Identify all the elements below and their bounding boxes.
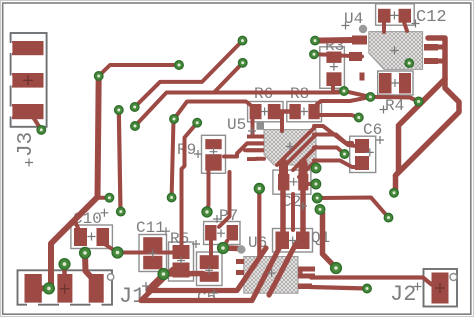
pin1 marker dot U4 [359, 25, 367, 33]
svg-text:C6: C6 [363, 121, 382, 139]
wire P7 left pad down to C5 top pad [209, 239, 213, 257]
J1 pin1 indicator circle [107, 274, 113, 280]
pin1 marker dot U6 [237, 245, 245, 253]
via V_q [112, 247, 123, 258]
capacitor C11 pad top [143, 237, 162, 251]
resistor R5 pad bottom [173, 263, 190, 278]
wire via B2 to via C2v [370, 97, 418, 102]
wire U5 pin3 stub [245, 148, 262, 152]
wire C10 right pad diag to via V_q [106, 245, 118, 253]
wire band1: via V_n diag, horizontal, diag d1 to Q1 left pad [148, 248, 266, 291]
via right of R4 [414, 97, 423, 106]
wire diag d_c to Q1 right pad [269, 244, 296, 296]
via V_o [218, 243, 229, 254]
trimmer P7 outline [204, 222, 240, 245]
via V_d [170, 115, 179, 124]
via V_b [130, 103, 139, 112]
via V_r [105, 193, 114, 202]
via near J2 [363, 284, 372, 293]
wire via V_l(64.5,264.1) down into J1 pad2 [62, 264, 67, 274]
capacitor C13 outline below U4 [378, 71, 413, 95]
wire via V_e(197.2,122.7) diag down, vertical to R5 top pad [182, 123, 198, 248]
via left riser top [94, 72, 103, 81]
wire U4 right pad1 stub [437, 45, 445, 50]
via V_n [158, 269, 169, 280]
via V_g [167, 193, 176, 202]
wire U4 right pad2 stub [437, 59, 445, 64]
svg-text:C11: C11 [136, 219, 165, 237]
capacitor C11 pad bottom [143, 256, 162, 269]
resistor R9 pad bottom [205, 154, 221, 171]
via V_p [331, 263, 342, 274]
svg-text:J3: J3 [15, 132, 38, 157]
via R3 top net [310, 50, 319, 59]
IC U6 body hatched [244, 257, 298, 294]
capacitor C13 pad right [399, 73, 411, 94]
wire vertical to P7 left pad [219, 172, 230, 227]
transistor Q1 pad left [276, 232, 290, 250]
wire branch diag to via(242.7,62.8) [214, 63, 243, 93]
wire stub bend to via V_r [98, 196, 108, 200]
trimmer P7 pad left [205, 225, 216, 241]
capacitor C5 pad top [200, 255, 219, 269]
wire via(317.2,198) right diag to via V_k(388.5,217.6) [321, 198, 389, 218]
wire via(179,65) to via(98.7,76) [99, 65, 179, 76]
via stair B branch end [238, 59, 247, 68]
svg-text:J2: J2 [390, 282, 416, 307]
via column 2 [311, 179, 321, 189]
via V_e [193, 118, 202, 127]
connector J1 pad 3 [89, 274, 104, 303]
wire C2 right pad stub to via(315.9,184) [308, 182, 313, 186]
svg-text:R9: R9 [177, 141, 196, 159]
wire R6 left pad down to U5 pin stub [253, 117, 263, 137]
origin crosses on pads (dark) [23, 75, 445, 293]
wire U5 row4 to C6 top pad [314, 135, 352, 144]
capacitor C2 pad right [298, 174, 308, 191]
wire diag over U5 body 3 [293, 147, 316, 170]
wire via(314,54.3) through R3 top pad to U4 pin2 [314, 52, 326, 56]
J2 pin1 indicator circle [450, 274, 457, 281]
via V_t [355, 113, 364, 122]
via inside U4 [405, 59, 414, 68]
via column 3 [312, 193, 322, 203]
IC U4 pad left pin2 [349, 52, 362, 61]
wire U5 row3 to C6 top pad [314, 126, 356, 146]
wire R6-R8 bridge [278, 109, 292, 114]
via end of horizontal net [175, 61, 184, 70]
svg-text:U5: U5 [227, 116, 246, 134]
wire U6 stub3 to via(367,288.5) [310, 287, 367, 289]
capacitor C12 outline [376, 4, 415, 25]
wire C2 right pad down to Q1 right pad [300, 190, 306, 235]
via at J3 pad3 [37, 126, 46, 135]
capacitor C6 pad top [355, 139, 369, 153]
capacitor C5 pad bottom [200, 272, 219, 282]
wire J3 pad3 to via(41.3,129.9) [33, 117, 41, 130]
via column 1 [311, 163, 321, 173]
capacitor C2 outline [273, 170, 311, 194]
IC U5 pin stubs left [247, 135, 264, 139]
resistor R5 pad top [173, 245, 190, 259]
wire U4 chevron outer to via V_j(394,192.8) [394, 38, 459, 193]
resistor R3 pad top [326, 52, 341, 63]
connector J3 pad 2 [12, 73, 44, 88]
IC U4 body hatched [369, 32, 423, 70]
resistor R6 pad left [250, 104, 262, 119]
connector J2 outline [424, 269, 458, 307]
wire R3 bottom pad to via A2 [333, 85, 344, 92]
capacitor C10 pad left [74, 228, 87, 246]
wire U5 pin4 stub [257, 157, 265, 161]
connector J3 pad 1 [12, 41, 44, 55]
IC U4 pad left pin1 [352, 36, 367, 45]
wire C2 center down to U6/Q1 gap [291, 194, 295, 230]
wire C2 left pad down to Q1 left pad [280, 190, 286, 235]
resistor R8 pad right [308, 104, 319, 119]
via at J1 pad1 [44, 283, 55, 294]
IC U4 pad right pin2 [424, 58, 438, 64]
IC U4 pad right pin1 [424, 44, 438, 51]
wire diag over U5 body 4 [299, 161, 316, 178]
component origin crosses (gray) [25, 11, 422, 297]
capacitor C6 outline [350, 136, 376, 172]
wire chevron inner chevA [396, 79, 446, 176]
transistor Q1 outline [273, 229, 313, 253]
capacitor C12 pad right [399, 9, 412, 23]
wire R6-R8 bridge down into U5 body [280, 112, 284, 131]
connector J3 outline [11, 33, 47, 127]
wire C12 left pad stub down to U4 [382, 22, 386, 32]
capacitor C10 outline [71, 225, 113, 249]
wire diag over U5 body 1 [277, 126, 316, 165]
resistor R3 outline [320, 47, 345, 89]
via B2 [366, 93, 375, 102]
via V_l on J1 pad2 [59, 259, 70, 270]
wire R3 top pad to U4 pin2 [341, 56, 362, 57]
capacitor C2 pad left [278, 174, 289, 191]
wire via V_m(85,252.9) down into J1 pad3 [85, 253, 91, 277]
wire U5 row6 to C6 bottom pad [314, 161, 356, 168]
wire via V_a(118.5,110) down to via V_f(120.8,211.6) [119, 110, 121, 212]
via V_a [115, 106, 124, 115]
capacitor C13 pad left [379, 73, 392, 94]
wire R8 right pad to via B2 and via(418.6,101.5) [317, 97, 370, 104]
connector J1 pad 2 [57, 274, 72, 303]
wire C12 right pad stub down [404, 22, 407, 31]
wire stair C: via V_d(174,119) to R6 left pad [174, 102, 251, 120]
wire via V_n(163.5,274) right through R5 pad into C5 bottom pad [164, 271, 204, 277]
via V_u [340, 150, 349, 159]
via V_m [80, 248, 91, 259]
wire band2: R5 bottom pad diag, horizontal, diag d2 to Q1 right pad [141, 249, 279, 301]
via V_h [202, 207, 212, 217]
via stair A end [238, 36, 247, 45]
wire U6 stub2 to J2 pad [311, 278, 432, 285]
wire U6 right stub pair bar [299, 269, 303, 276]
connector J1 pad 1 [25, 274, 42, 303]
wire thick J3 riser: via(98.7,76) down to bend, diag to J1 pad1 via [40, 76, 99, 288]
capacitor C6 pad bottom [355, 156, 369, 170]
wire via V_o right stub to U6 pin1 [223, 245, 238, 251]
wire U5 corner stub to via(316,168) [312, 165, 316, 168]
resistor R9 pad top [205, 139, 221, 149]
via U4 pin1 net [311, 36, 320, 45]
via V_i [254, 184, 264, 194]
wire U5 body into C2 right pad entry [299, 163, 308, 178]
capacitor C5 outline [197, 252, 223, 286]
wire stub diag into C10 left pad [75, 221, 79, 229]
wire P7 pad diag to via V_o(223,248) [224, 241, 228, 247]
connector J2 pad [432, 273, 449, 304]
wire R8 right pad to via V_t(358.8,117.5) [317, 115, 359, 118]
capacitor C10 pad right [97, 228, 110, 246]
resistor R3 pad bottom [326, 72, 341, 86]
wire via V_q(117.5,252.5) right to R5 top pad [118, 251, 178, 255]
pin1 marker square U5 [257, 122, 265, 130]
wire J1 pad1 stub to riser via [32, 286, 49, 291]
IC U6 pin stubs left [236, 259, 244, 264]
IC U6 pin stubs right [298, 267, 315, 272]
wire via V_d down to via V_g [172, 120, 174, 198]
resistor R8 outline [287, 102, 322, 122]
via V_c [131, 122, 140, 131]
wire via(315,40.6) thick to U4 pin1 [315, 37, 364, 44]
IC U5 body hatched [264, 130, 316, 166]
resistor R8 pad left [289, 104, 300, 119]
wire diag over U5 body 2 [285, 135, 317, 167]
wire U5 pin2 stub diag to R9 bottom pad [224, 143, 262, 156]
connector J1 outline [18, 270, 113, 304]
resistor R9 outline [202, 135, 226, 173]
svg-text:C12: C12 [416, 8, 447, 27]
resistor R6 outline [248, 102, 283, 122]
IC U4 small pads lower left [360, 73, 365, 81]
trimmer P7 pad right [227, 225, 238, 241]
wire via A2(344,91) to via B2 [344, 91, 370, 97]
wire U5 row5 to via V_u(344.5,154) [314, 148, 345, 155]
wire stair B: via V_c(135,126) long horizontal to R3/A2 junction [135, 91, 344, 126]
wire U5 body into C2 left pad entry [279, 163, 288, 178]
capacitor C11 outline [139, 235, 167, 272]
transistor Q1 pad right [296, 232, 310, 250]
resistor R5 outline [169, 242, 194, 281]
wire via4(320,209.4) chain down to via V_p(336,268) [320, 210, 336, 268]
wire stair A: via V_b(134.7,107) to via(242.5,40.6) [135, 41, 243, 107]
connector J3 pad 3 [12, 104, 44, 119]
connector outline pin notches (white) [9, 43, 102, 307]
via V_j [390, 189, 399, 198]
via A2 [340, 87, 349, 96]
via V_f [117, 207, 126, 216]
wire via V_i(259.3,188.5) down to U6 body [257, 189, 261, 259]
via V_k [384, 213, 393, 222]
via column 4 [315, 205, 325, 215]
resistor R6 pad right [268, 104, 281, 119]
wire R9 bottom pad down to via V_h(207,211.9) [207, 168, 208, 209]
capacitor C12 pad left [378, 9, 391, 23]
svg-text:R4: R4 [385, 97, 404, 115]
